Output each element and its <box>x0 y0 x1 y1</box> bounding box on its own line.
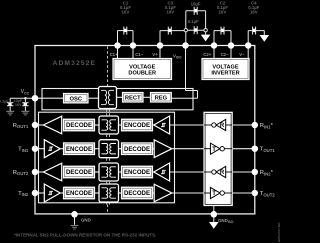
svg-text:VOLTAGE: VOLTAGE <box>212 64 238 70</box>
svg-text:TOUT2: TOUT2 <box>260 191 276 197</box>
svg-text:V−: V− <box>239 52 245 57</box>
svg-text:TIN1: TIN1 <box>18 147 29 153</box>
svg-text:ENCODE: ENCODE <box>66 146 92 153</box>
svg-text:ROUT1: ROUT1 <box>13 123 29 129</box>
svg-text:R: R <box>220 170 225 176</box>
svg-text:DECODE: DECODE <box>66 169 92 176</box>
svg-text:C2+: C2+ <box>203 52 211 57</box>
svg-text:R: R <box>220 123 225 129</box>
svg-text:OSC: OSC <box>69 96 82 102</box>
svg-text:DOUBLER: DOUBLER <box>128 71 156 77</box>
svg-text:C1+: C1+ <box>110 52 118 57</box>
svg-text:T: T <box>212 191 216 197</box>
svg-text:10µF: 10µF <box>191 1 201 6</box>
svg-text:0.1µF: 0.1µF <box>188 19 199 24</box>
svg-text:ROUT2: ROUT2 <box>13 170 29 176</box>
svg-text:RIN2*: RIN2* <box>260 170 274 176</box>
svg-text:09753-009: 09753-009 <box>277 223 280 243</box>
svg-text:T: T <box>212 147 216 153</box>
svg-text:ENCODE: ENCODE <box>124 169 150 176</box>
svg-text:TIN2: TIN2 <box>18 191 29 197</box>
svg-text:V+: V+ <box>152 52 158 57</box>
svg-text:RECT: RECT <box>125 95 141 101</box>
svg-text:16V: 16V <box>219 9 227 14</box>
svg-text:ADM3252E: ADM3252E <box>53 60 97 67</box>
svg-text:DECODE: DECODE <box>66 122 92 129</box>
svg-text:16V: 16V <box>250 9 258 14</box>
svg-text:INVERTER: INVERTER <box>211 71 239 77</box>
svg-text:VOLTAGE: VOLTAGE <box>129 64 155 70</box>
svg-text:TOUT1: TOUT1 <box>260 147 276 153</box>
svg-text:16V: 16V <box>15 103 22 107</box>
svg-text:16V: 16V <box>122 9 130 14</box>
svg-text:ENCODE: ENCODE <box>66 190 92 197</box>
svg-text:DECODE: DECODE <box>124 146 150 153</box>
svg-text:C2−: C2− <box>221 52 229 57</box>
svg-text:*INTERNAL 5kΩ PULL-DOWN RESIST: *INTERNAL 5kΩ PULL-DOWN RESISTOR ON THE … <box>14 232 156 237</box>
svg-text:16V: 16V <box>166 9 174 14</box>
svg-text:DECODE: DECODE <box>124 190 150 197</box>
svg-text:GND: GND <box>81 218 91 223</box>
svg-text:C1−: C1− <box>135 52 143 57</box>
svg-text:0.1µF: 0.1µF <box>0 100 9 104</box>
svg-text:ENCODE: ENCODE <box>124 122 150 129</box>
svg-text:REG: REG <box>155 95 168 101</box>
svg-text:RIN1*: RIN1* <box>260 123 274 129</box>
